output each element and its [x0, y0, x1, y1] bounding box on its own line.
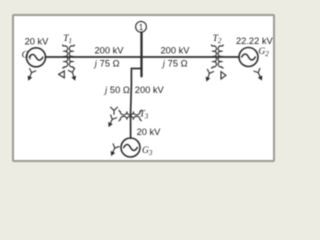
transformer T1: [63, 45, 75, 68]
svg-text:T2: T2: [213, 34, 222, 45]
wire G1 to bus 1 through T1: [46, 56, 142, 58]
svg-text:G1: G1: [22, 51, 32, 62]
svg-text:j 75 Ω: j 75 Ω: [161, 59, 187, 70]
delta symbol of T2: [221, 72, 226, 79]
ground wye symbol of G3: [109, 144, 120, 157]
wire bus 1 to G3 through T3 (jog): [131, 69, 142, 139]
node 1 marker: [136, 21, 147, 32]
ground wye symbol of T2: [204, 69, 214, 81]
svg-text:200 kV: 200 kV: [95, 46, 125, 56]
svg-text:j 75 Ω: j 75 Ω: [93, 59, 119, 70]
transformer T3: [119, 110, 141, 121]
ground wye symbol of T1: [68, 68, 78, 80]
wye symbol of T3 top winding: [111, 107, 118, 114]
svg-text:200 kV: 200 kV: [161, 46, 191, 56]
generator G3: [121, 138, 140, 157]
wire bus 1 to G2 through T2: [142, 56, 240, 58]
ground wye symbol of G1: [26, 68, 36, 80]
svg-text:T1: T1: [63, 34, 72, 45]
generator G2: [239, 48, 258, 67]
svg-text:G2: G2: [258, 47, 269, 58]
svg-text:20 kV: 20 kV: [25, 37, 50, 47]
svg-text:G3: G3: [142, 146, 153, 157]
delta symbol of T1: [59, 71, 65, 78]
svg-text:200 kV: 200 kV: [135, 85, 165, 95]
bus 1 bar: [140, 32, 142, 76]
transformer T2: [211, 45, 223, 68]
svg-text:20 kV: 20 kV: [137, 127, 162, 137]
svg-text:22.22 kV: 22.22 kV: [236, 36, 273, 46]
svg-text:j 50 Ω: j 50 Ω: [104, 85, 130, 96]
svg-text:1: 1: [139, 23, 143, 32]
ground wye symbol of T3 bottom winding: [106, 115, 117, 128]
svg-text:T3: T3: [140, 110, 149, 121]
ground wye symbol of G2: [254, 68, 265, 81]
generator G1: [27, 48, 46, 67]
